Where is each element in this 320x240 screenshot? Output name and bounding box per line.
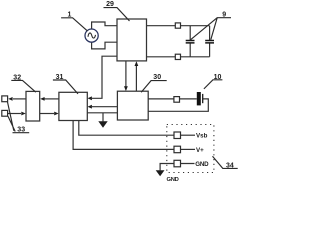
label 9 (190, 11, 231, 40)
wire B29 to B30 down arrow (124, 61, 128, 91)
capacitor C1 (186, 26, 195, 57)
wire source bottom lead (92, 42, 117, 49)
label 30 (141, 74, 167, 92)
wire B32 to B31 (40, 112, 59, 116)
svg-text:GND: GND (167, 177, 179, 182)
label 29 (104, 1, 130, 21)
svg-text:V+: V+ (196, 147, 204, 154)
svg-text:GND: GND (195, 161, 209, 168)
wire B29 right top to caps (147, 25, 210, 27)
pad V+ (174, 146, 181, 153)
capacitor C2 (205, 26, 214, 57)
block 31 (59, 92, 87, 120)
wire B32 to pad 33a (8, 97, 26, 101)
pad 33b (2, 110, 8, 116)
pad 33a (2, 96, 8, 102)
label 1 (61, 12, 87, 31)
AC source 1 (85, 29, 98, 42)
pad square transducer (174, 97, 180, 103)
label 31 (53, 74, 78, 94)
pad square top right (175, 23, 180, 28)
wire transducer return (148, 99, 208, 111)
wire B30 to B31 (88, 105, 118, 109)
wire B29 right bottom to caps (147, 56, 210, 58)
label 10 (204, 74, 223, 89)
transducer 10 bar (197, 92, 201, 105)
transducer 10 plate (202, 94, 204, 103)
wire feedback B29 to B31 (88, 56, 118, 100)
wire B31 to B30 (87, 112, 117, 114)
label 33 (8, 102, 30, 133)
wire B31 to B32 (40, 97, 59, 101)
wire B30 to B29 up arrow (135, 61, 139, 91)
wire source top lead (92, 22, 117, 29)
pad Vsb (174, 132, 181, 139)
block 32 (26, 91, 40, 121)
ground arrow bottom (156, 170, 165, 176)
wire Vsb bus (79, 121, 174, 136)
pad GND (174, 160, 181, 167)
wire Vsb row (181, 134, 196, 136)
dotted box 34 (167, 125, 214, 173)
block 29 (117, 19, 147, 61)
label 34 (213, 156, 238, 169)
svg-text:Vsb: Vsb (196, 133, 208, 140)
wire V+ row (181, 148, 196, 150)
wire GND row (160, 164, 194, 171)
pad square bottom right (175, 54, 180, 59)
wire pad 33b to B32 (8, 112, 26, 116)
block 30 (117, 91, 148, 120)
wire V+ bus (73, 121, 174, 150)
label 32 (11, 75, 36, 93)
ground arrow mid (98, 113, 107, 128)
wire B30 to transducer (148, 98, 197, 100)
